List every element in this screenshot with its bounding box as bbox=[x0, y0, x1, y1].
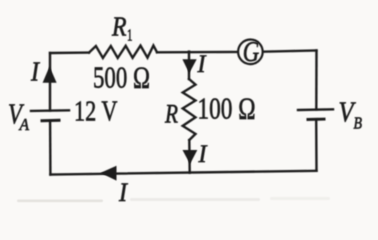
current arrow left (bottom wire) bbox=[101, 166, 117, 181]
wire top-left bbox=[50, 51, 89, 54]
wire middle lower bbox=[188, 140, 191, 173]
wire left lower bbox=[49, 121, 52, 175]
battery VB long plate bbox=[298, 108, 333, 111]
resistor R bbox=[183, 79, 196, 140]
current arrow up (left branch) bbox=[43, 67, 57, 83]
battery VA long plate bbox=[31, 109, 69, 112]
wire left upper bbox=[49, 53, 51, 111]
svg-text:12 V: 12 V bbox=[74, 95, 118, 127]
svg-text:A: A bbox=[19, 115, 30, 134]
wire top-right bbox=[264, 51, 317, 52]
svg-text:B: B bbox=[354, 114, 363, 133]
svg-text:1: 1 bbox=[127, 26, 133, 45]
resistor R1 bbox=[89, 46, 157, 59]
svg-text:R: R bbox=[111, 12, 127, 42]
wire top-middle bbox=[157, 51, 237, 54]
svg-text:R: R bbox=[164, 100, 178, 129]
wire right lower bbox=[315, 119, 318, 171]
battery VB short plate bbox=[308, 118, 324, 121]
svg-text:500 Ω: 500 Ω bbox=[93, 59, 150, 94]
wire middle upper bbox=[188, 52, 190, 79]
scan smudge bottom bbox=[17, 197, 330, 202]
galvanometer G circle bbox=[238, 40, 263, 65]
battery VA short plate bbox=[42, 119, 59, 122]
current arrow down (middle bottom) bbox=[183, 150, 198, 164]
current arrow down (middle top) bbox=[182, 59, 196, 73]
wire bottom bbox=[50, 171, 316, 175]
svg-text:I: I bbox=[118, 178, 128, 207]
wire right upper bbox=[315, 51, 318, 110]
svg-text:G: G bbox=[243, 36, 260, 68]
svg-text:100 Ω: 100 Ω bbox=[197, 91, 255, 126]
